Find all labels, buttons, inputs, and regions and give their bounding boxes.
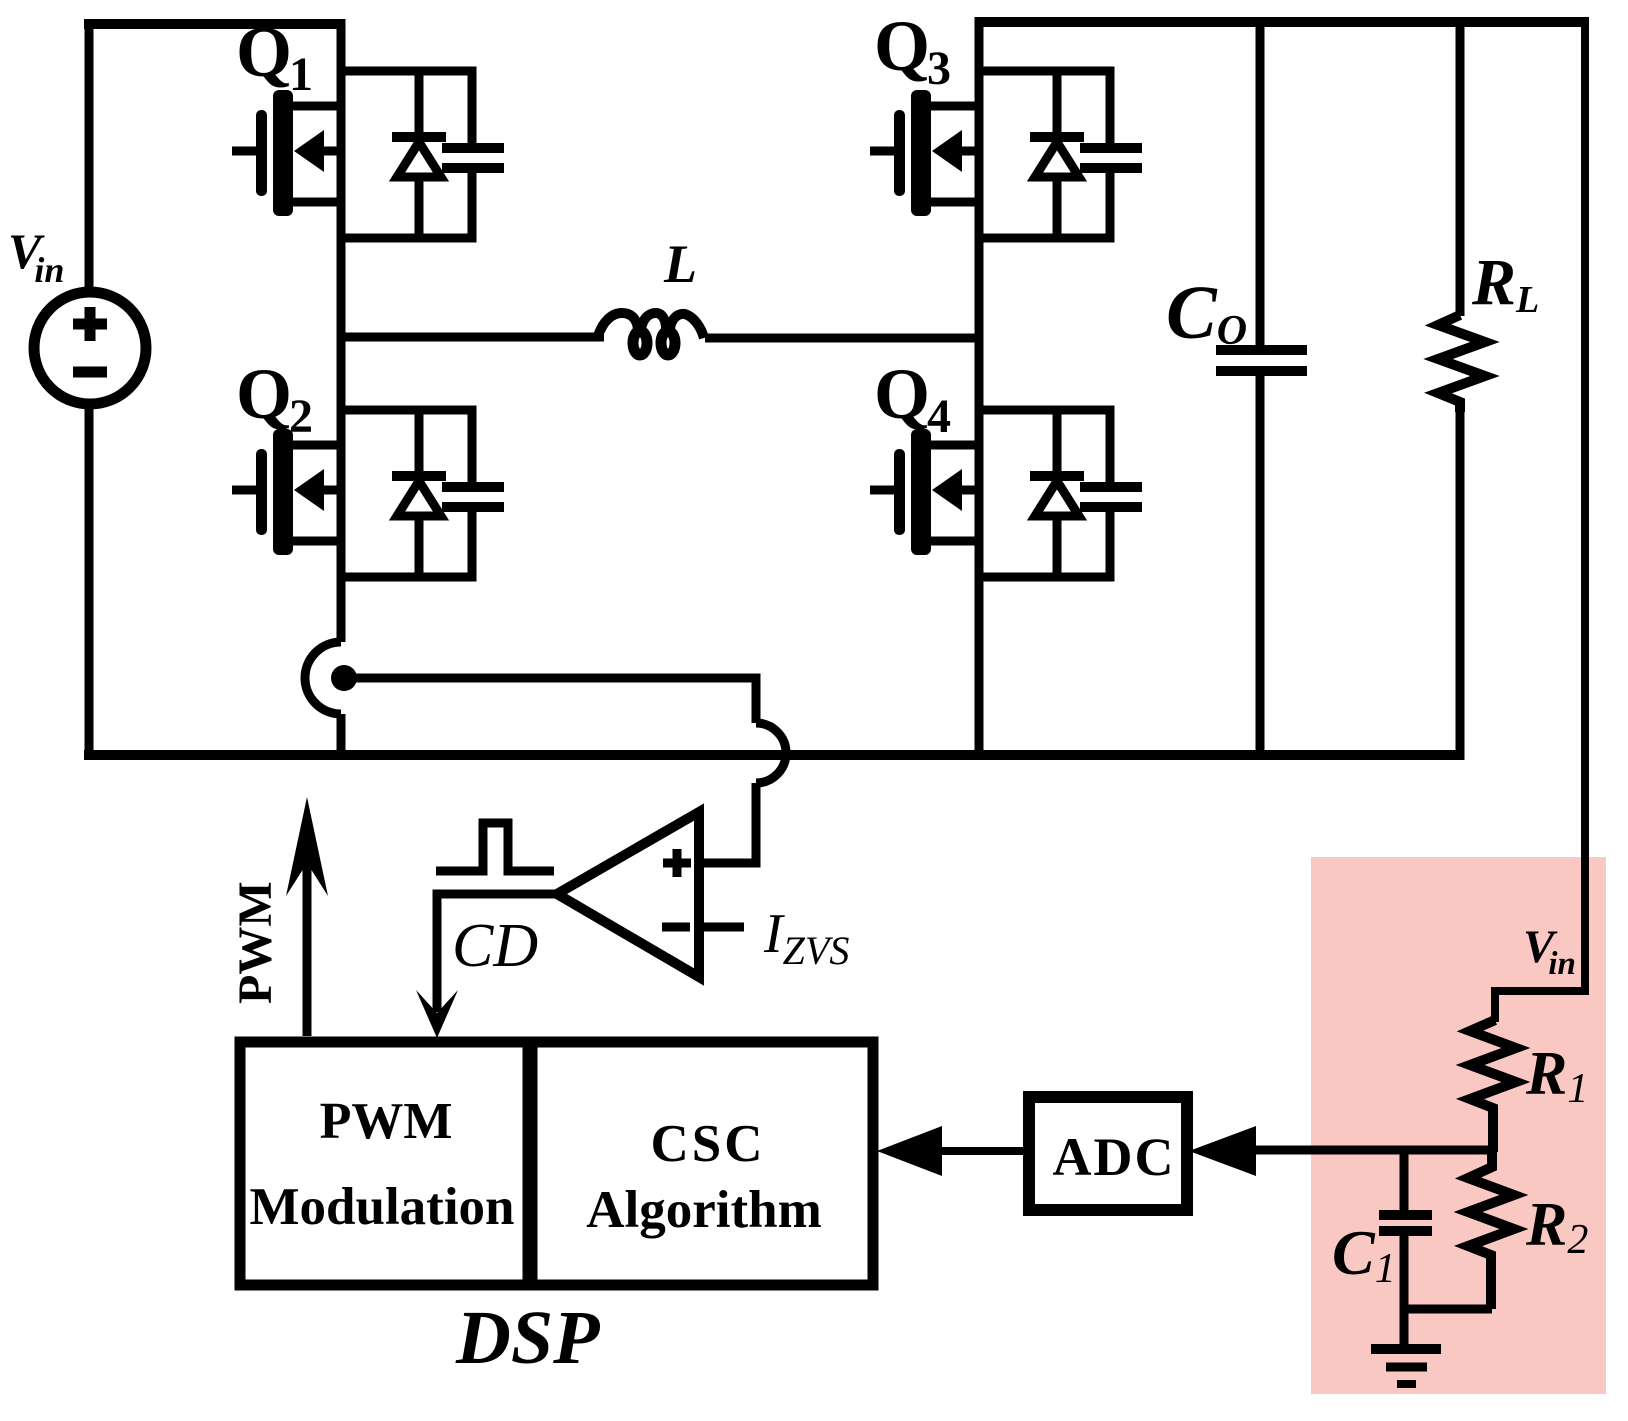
block ADC (1029, 1097, 1187, 1210)
capacitor C1 (1379, 1146, 1432, 1313)
wire bottom rail (84, 750, 1464, 760)
svg-text:CSC: CSC (650, 1115, 765, 1173)
body diode of Q3 (1030, 71, 1084, 238)
svg-text:Modulation: Modulation (249, 1178, 514, 1236)
wire Q3 snubber loop (979, 71, 1110, 238)
wire left rail upper (85, 19, 94, 295)
wire Co branch lower (1256, 375, 1265, 755)
snubber capacitor of Q2 (442, 487, 504, 507)
wire Q2 leg to bottom rail (337, 714, 346, 760)
wire top-right rail (975, 17, 1589, 27)
wire crossover to comparator + input (701, 783, 756, 863)
wire comparator output (437, 894, 557, 1012)
arrow CD into DSP (416, 990, 458, 1038)
voltage source Vin (34, 292, 146, 404)
arrow divider to ADC (1189, 1126, 1256, 1176)
svg-text:DSP: DSP (455, 1296, 600, 1380)
transistor Q3 (870, 90, 983, 216)
crossover hop over bottom rail (756, 723, 786, 783)
resistor RL (1438, 315, 1485, 412)
svg-text:CD: CD (452, 912, 538, 980)
wire IZVS to comparator - input (699, 923, 744, 932)
arrow ADC to CSC (877, 1126, 942, 1176)
wire Q1 snubber loop (341, 71, 472, 238)
block DSP (240, 1042, 873, 1285)
body diode of Q2 (392, 410, 446, 577)
body diode of Q4 (1030, 410, 1084, 577)
resistor R1 (1470, 1020, 1516, 1152)
wire ADC to DSP (938, 1147, 1029, 1155)
snubber capacitor of Q3 (1080, 148, 1142, 168)
svg-text:PWM: PWM (320, 1093, 453, 1150)
wire RL branch lower (1456, 410, 1465, 760)
current sensor on Q2 leg (305, 642, 357, 714)
wire right rail to divider (Vin sense) (1495, 22, 1585, 1022)
snubber capacitor of Q1 (442, 148, 504, 168)
svg-text:Algorithm: Algorithm (586, 1181, 822, 1239)
arrow PWM out of DSP (303, 860, 312, 1036)
wire mid rail right (inductor to node B) (705, 334, 979, 343)
transistor Q1 (232, 90, 345, 216)
highlight region (Vin sense network) (1311, 857, 1606, 1394)
transistor Q4 (870, 429, 983, 555)
wire Q2 snubber loop (341, 410, 472, 577)
transistor Q2 (232, 429, 345, 555)
wire Q3-Q4 leg trunk (975, 17, 984, 760)
pulse symbol (one-shot) (436, 823, 554, 871)
wire Co branch upper (1256, 22, 1265, 346)
svg-text:L: L (663, 234, 697, 294)
wire R2 bottom to C1 bottom (1400, 1305, 1492, 1314)
wire mid rail left (node A to inductor) (341, 333, 604, 342)
inductor L (598, 313, 704, 355)
comparator U1 (557, 812, 699, 977)
wire divider tap to ADC (1250, 1146, 1493, 1155)
snubber capacitor of Q4 (1080, 487, 1142, 507)
wire RL branch upper (1456, 22, 1465, 316)
svg-text:ADC: ADC (1053, 1127, 1176, 1187)
capacitor Co (1216, 350, 1307, 371)
wire left rail lower (85, 404, 94, 760)
resistor R2 (1468, 1150, 1514, 1309)
wire top-left rail (84, 19, 345, 29)
svg-text:PWM: PWM (229, 881, 282, 1004)
ground (1371, 1309, 1441, 1384)
body diode of Q1 (392, 71, 446, 238)
wire sensor tap to crossover (344, 678, 756, 723)
wire Q1-Q2 leg trunk (337, 19, 346, 642)
wire Q4 snubber loop (979, 410, 1110, 577)
